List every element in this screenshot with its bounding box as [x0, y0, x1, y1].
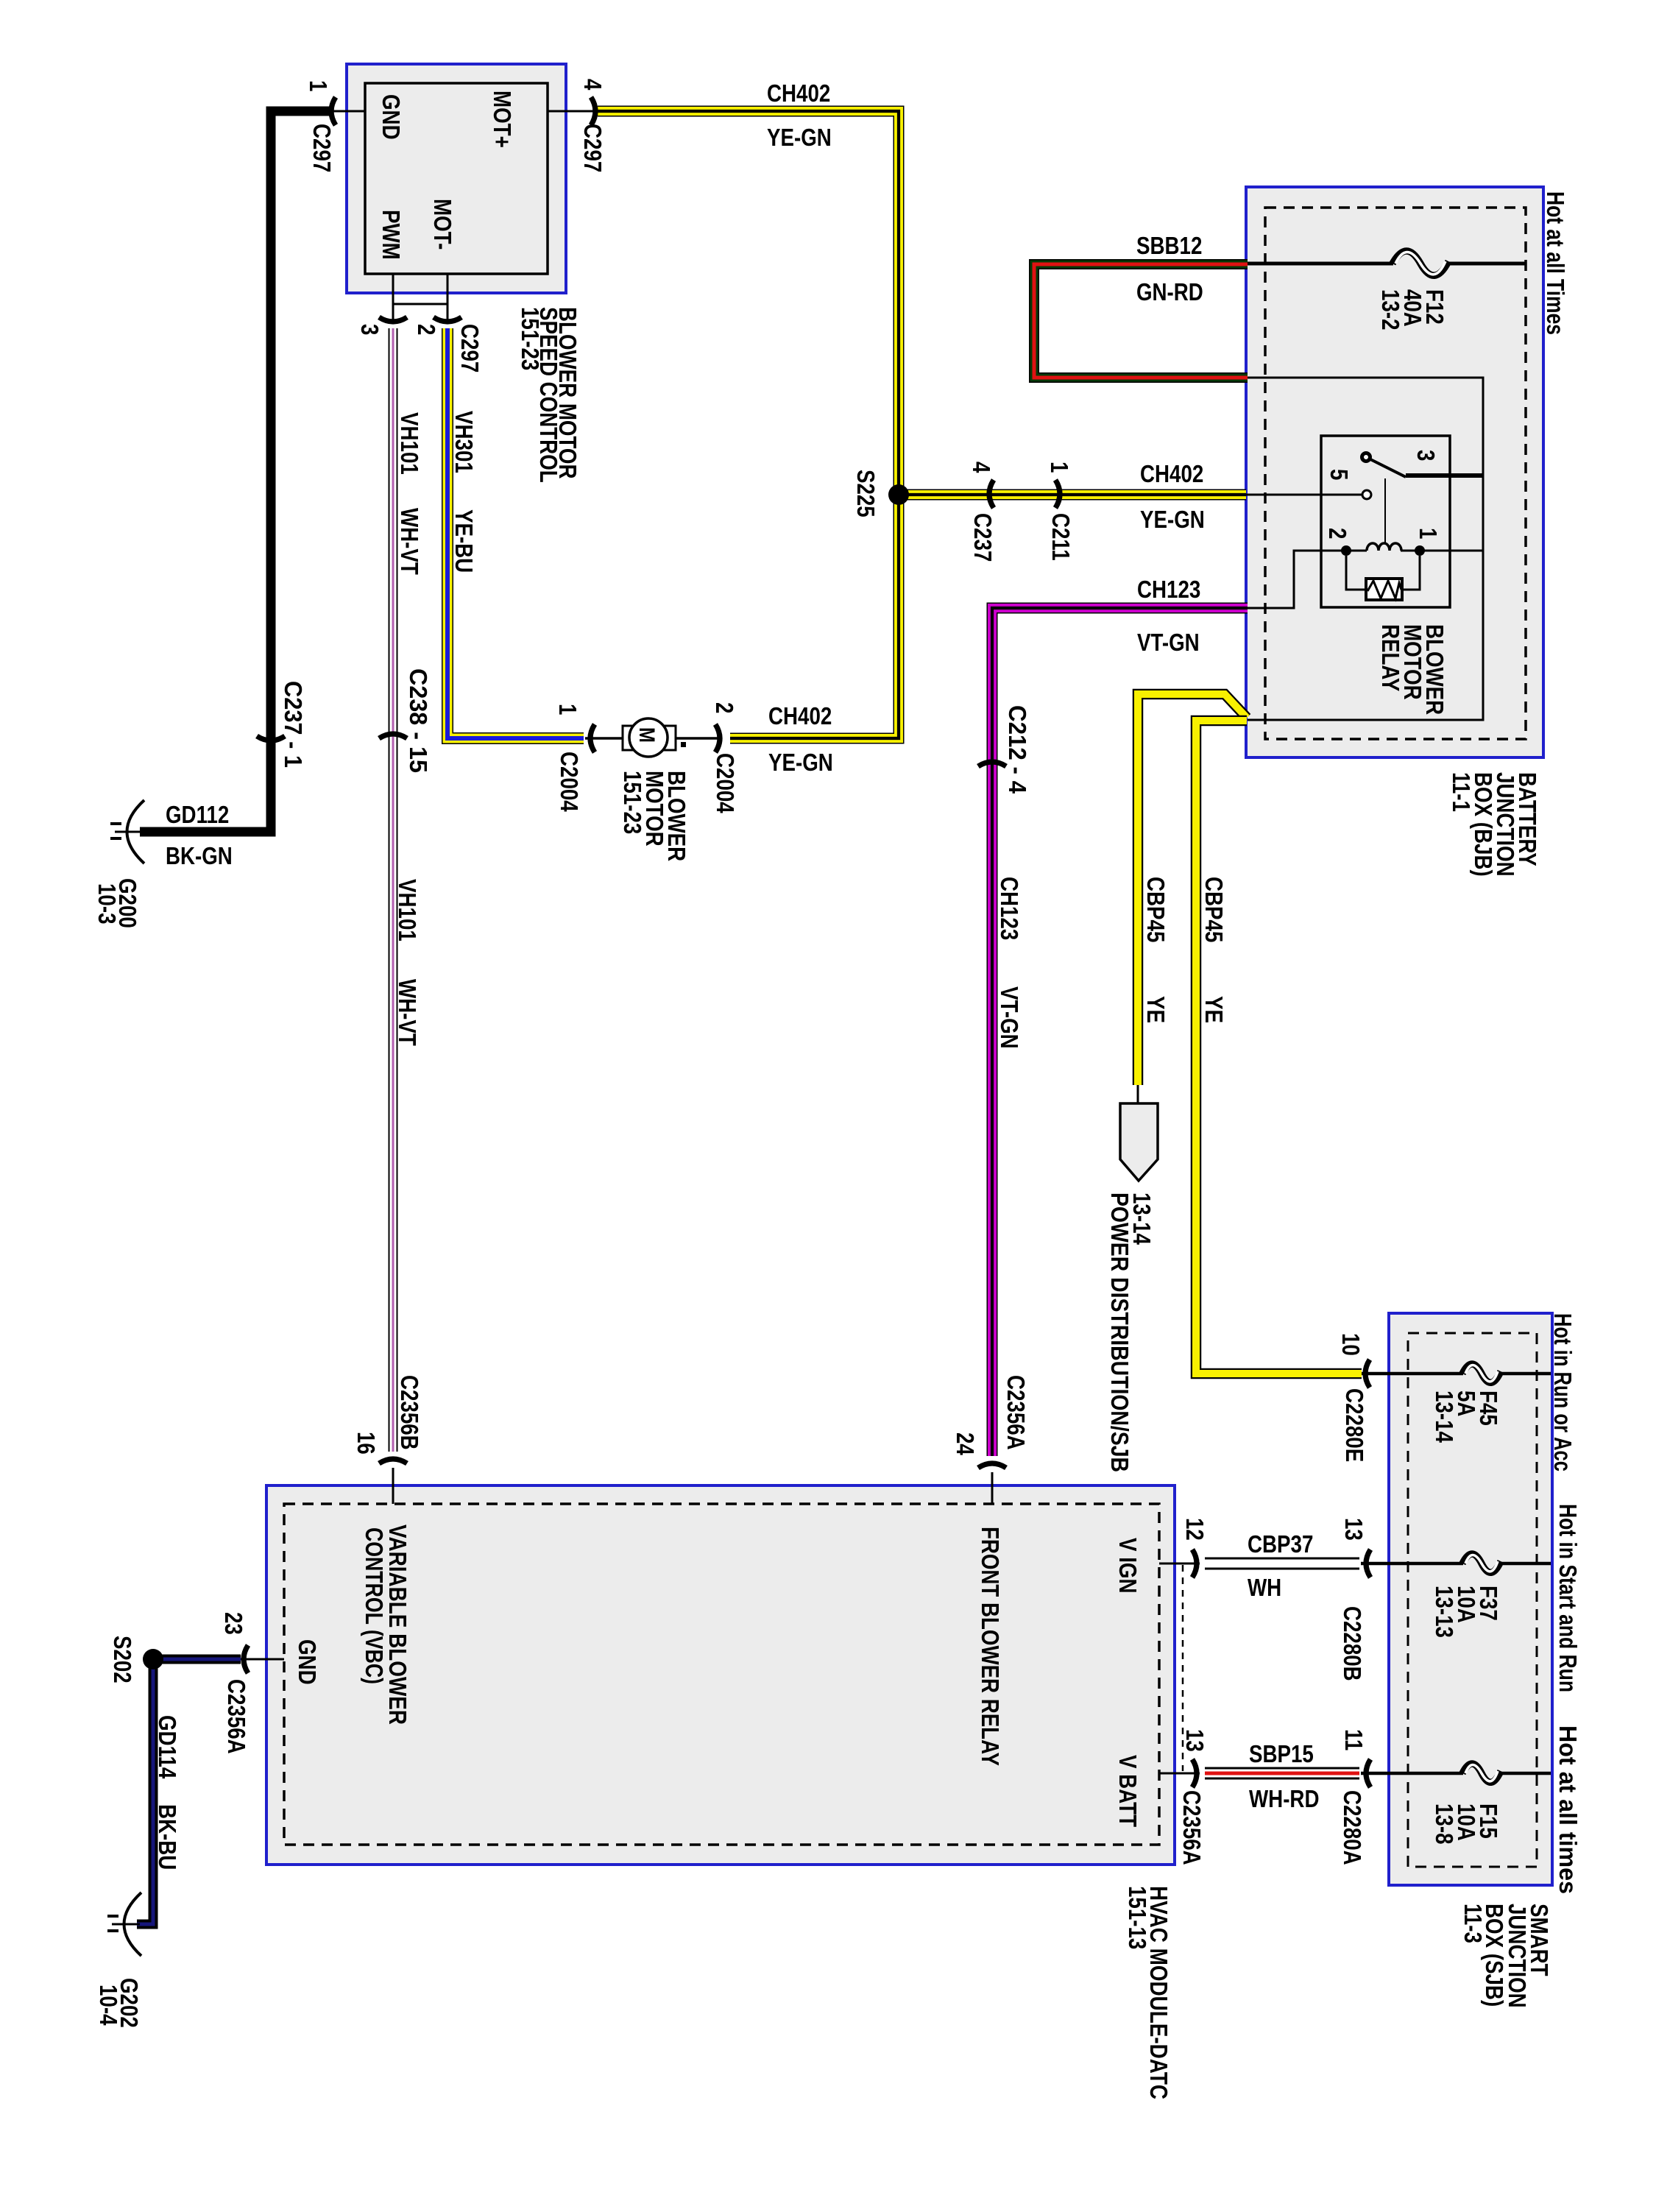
label blower motor relay — [1377, 624, 1448, 715]
svg-text:13-8: 13-8 — [1431, 1803, 1458, 1845]
wire: BJB internal from SBB12 to relay pin 3 — [1248, 378, 1483, 720]
wire: dashed link pin12-pin13 C2356A — [1182, 1565, 1184, 1771]
svg-text:C2280B: C2280B — [1339, 1606, 1366, 1681]
wire CBP45 YE to power distribution — [1138, 694, 1247, 1085]
wire: VBC V BATT pin lead — [1159, 1773, 1200, 1775]
fuse F37 10A — [1462, 1554, 1501, 1572]
junction S225 — [888, 484, 909, 505]
wire CBP37 WH (double line white wire) — [1205, 1558, 1359, 1569]
ground G200 — [127, 800, 145, 863]
svg-text:10-3: 10-3 — [93, 883, 121, 925]
wire: BMSC pin4 lead — [548, 110, 598, 113]
wire: BMSC pin3/pin2 leads and tie — [393, 274, 447, 324]
label G202 10-4 — [95, 1978, 143, 2028]
svg-text:CH123: CH123 — [996, 877, 1023, 940]
connector C2356A pin24 arrow — [978, 1463, 1006, 1468]
svg-text:C297: C297 — [308, 124, 336, 172]
power distribution pointer symbol — [1120, 1103, 1158, 1181]
svg-text:2: 2 — [1324, 528, 1351, 539]
svg-text:YE-BU: YE-BU — [450, 509, 478, 573]
svg-text:151-13: 151-13 — [1124, 1886, 1151, 1949]
svg-text:C297: C297 — [456, 324, 484, 372]
wire CBP45 YE to SJB C2280E — [1196, 721, 1362, 1374]
svg-text:YE: YE — [1142, 996, 1170, 1023]
svg-text:FRONT BLOWER RELAY: FRONT BLOWER RELAY — [977, 1527, 1004, 1766]
svg-text:YE-GN: YE-GN — [767, 124, 832, 151]
wire GD114 BK-BU VBC ground — [137, 1659, 241, 1924]
svg-text:10: 10 — [1337, 1333, 1365, 1356]
svg-text:WH-VT: WH-VT — [394, 979, 421, 1046]
label F45 5A 13-14 — [1431, 1391, 1502, 1443]
svg-text:151-23: 151-23 — [517, 307, 544, 370]
wire CH123 VT-GN relay coil control — [992, 608, 1248, 1456]
svg-text:1: 1 — [305, 80, 332, 91]
svg-text:2: 2 — [711, 702, 738, 713]
svg-text:1: 1 — [1046, 462, 1073, 473]
connector C2356A pin23 arrow — [244, 1645, 248, 1673]
svg-text:MOT-: MOT- — [429, 199, 456, 250]
svg-text:C2004: C2004 — [556, 752, 583, 812]
svg-text:10-4: 10-4 — [95, 1985, 122, 2026]
connector C2280E pin10 arrow — [1365, 1360, 1370, 1388]
svg-text:GND: GND — [294, 1639, 321, 1685]
svg-text:VH301: VH301 — [450, 411, 478, 473]
svg-text:CBP37: CBP37 — [1248, 1530, 1313, 1558]
svg-text:3: 3 — [356, 324, 383, 335]
svg-text:GND: GND — [378, 94, 405, 140]
blower motor relay — [1321, 436, 1450, 607]
blower motor speed control module U1 box — [347, 64, 566, 293]
svg-text:M: M — [634, 727, 659, 743]
svg-text:24: 24 — [952, 1432, 979, 1455]
svg-text:C297: C297 — [579, 124, 606, 172]
svg-text:RELAY: RELAY — [1377, 624, 1404, 691]
svg-text:13: 13 — [1181, 1729, 1209, 1752]
svg-text:MOT+: MOT+ — [489, 91, 516, 148]
svg-text:13-14: 13-14 — [1431, 1391, 1458, 1443]
wire: SJB fuse F45 line — [1362, 1372, 1463, 1376]
connector C2356A pin12 arrow — [1192, 1550, 1197, 1577]
svg-text:V IGN: V IGN — [1114, 1538, 1142, 1594]
wire: SJB fuse F37 line — [1361, 1562, 1463, 1566]
wire CH402 YE-GN branch S225 to relay pin 5 — [899, 490, 1246, 501]
connector C2280B pin13 arrow — [1366, 1550, 1370, 1577]
svg-text:VT-GN: VT-GN — [1137, 629, 1200, 656]
svg-text:CH402: CH402 — [768, 702, 832, 729]
svg-text:2: 2 — [413, 324, 440, 335]
svg-text:1: 1 — [554, 704, 581, 715]
svg-text:12: 12 — [1181, 1518, 1209, 1541]
svg-text:VH101: VH101 — [394, 879, 421, 941]
label F37 10A 13-13 — [1431, 1586, 1502, 1638]
svg-text:C2280A: C2280A — [1339, 1790, 1366, 1865]
fuse F12 40A — [1393, 251, 1448, 275]
wire CH402 YE-GN from MOT+ through S225 to blower motor — [598, 111, 899, 738]
smart junction box (SJB) — [1389, 1313, 1552, 1885]
svg-text:16: 16 — [353, 1432, 380, 1455]
svg-text:151-23: 151-23 — [619, 771, 646, 834]
junction S202 — [143, 1649, 163, 1669]
wire: BJB fuse F12 feed line — [1246, 262, 1393, 266]
svg-text:CH402: CH402 — [767, 79, 830, 107]
label BMSC name — [517, 307, 581, 483]
svg-text:Hot in Run or Acc: Hot in Run or Acc — [1549, 1313, 1577, 1471]
svg-text:1: 1 — [1415, 528, 1442, 539]
label HVAC module — [1124, 1886, 1172, 2099]
svg-text:C2004: C2004 — [712, 753, 739, 813]
label smart junction box — [1459, 1904, 1553, 2008]
fuse F15 10A — [1462, 1764, 1501, 1782]
svg-text:C212 - 4: C212 - 4 — [1004, 705, 1031, 794]
wire: VBC GND pin lead — [241, 1658, 284, 1661]
connector C211 pin1 arrow — [1055, 480, 1060, 508]
svg-text:C2356B: C2356B — [396, 1375, 423, 1450]
svg-text:S225: S225 — [852, 470, 880, 517]
connector C297 pin2 arrow — [434, 317, 461, 322]
ground G202 — [124, 1893, 142, 1956]
wire: VBC V IGN pin lead — [1159, 1563, 1200, 1565]
connector C297 pin3 arrow — [379, 317, 407, 322]
connector C297 pin1 arrow — [331, 97, 336, 125]
svg-text:23: 23 — [220, 1612, 247, 1635]
svg-text:13: 13 — [1340, 1518, 1367, 1541]
svg-text:CBP45: CBP45 — [1142, 877, 1170, 942]
wire VH301 YE-BU (MOT-) to blower motor — [447, 328, 584, 738]
connector C237-1 arrow — [257, 736, 285, 741]
svg-text:VT-GN: VT-GN — [996, 986, 1023, 1049]
connector C237 pin4 arrow — [989, 480, 994, 508]
svg-text:GD114: GD114 — [154, 1715, 181, 1779]
svg-text:YE-GN: YE-GN — [768, 749, 833, 776]
svg-text:SBP15: SBP15 — [1249, 1740, 1314, 1767]
svg-text:CH402: CH402 — [1140, 460, 1203, 487]
label F12 40A 13-2 — [1377, 289, 1448, 331]
svg-text:CBP45: CBP45 — [1200, 877, 1228, 942]
wire VH101 WH-VT (PWM) — [389, 328, 398, 1452]
svg-text:C2280E: C2280E — [1341, 1388, 1368, 1462]
svg-text:VH101: VH101 — [396, 412, 423, 475]
svg-text:WH-RD: WH-RD — [1249, 1785, 1320, 1812]
svg-text:11-1: 11-1 — [1448, 772, 1475, 812]
svg-text:Hot at all Times: Hot at all Times — [1542, 191, 1569, 335]
wire GD112 BK-GN (thick black ground wire) — [140, 111, 329, 832]
label variable blower control — [361, 1524, 411, 1725]
label F15 10A 13-8 — [1431, 1803, 1502, 1845]
connector C2280A pin11 arrow — [1366, 1759, 1370, 1787]
connector C2004 pin2 arrow — [715, 724, 720, 752]
blower motor M — [623, 718, 686, 757]
svg-text:BK-GN: BK-GN — [166, 842, 233, 869]
svg-text:4: 4 — [579, 79, 606, 91]
wire SBP15 WH-RD — [1205, 1768, 1359, 1778]
svg-text:C237: C237 — [969, 513, 997, 562]
svg-text:BK-BU: BK-BU — [154, 1804, 181, 1870]
wire: relay pin 5 to CH402 — [1246, 494, 1362, 496]
svg-text:4: 4 — [968, 462, 995, 473]
svg-text:C2356A: C2356A — [1178, 1790, 1206, 1865]
svg-text:V BATT: V BATT — [1114, 1755, 1142, 1827]
label battery junction box — [1448, 772, 1541, 877]
svg-text:CONTROL (VBC): CONTROL (VBC) — [361, 1527, 388, 1684]
label blower motor name — [619, 771, 690, 861]
svg-text:WH: WH — [1248, 1574, 1281, 1601]
svg-text:11: 11 — [1340, 1729, 1367, 1750]
svg-text:Hot in Start and Run: Hot in Start and Run — [1554, 1504, 1582, 1692]
svg-text:3: 3 — [1412, 450, 1440, 461]
svg-text:5: 5 — [1326, 469, 1353, 480]
wire: lead to power distribution pointer — [1137, 1085, 1139, 1106]
svg-text:SBB12: SBB12 — [1136, 232, 1202, 259]
connector C2004 pin1 arrow — [590, 724, 595, 752]
label 13-14 power distribution — [1106, 1192, 1156, 1472]
connector C2356B pin16 arrow — [379, 1459, 407, 1463]
wire: VBC pin24 lead — [991, 1472, 994, 1504]
svg-text:S202: S202 — [109, 1636, 136, 1683]
wire SBB12 GN-RD battery feed — [1034, 264, 1248, 378]
wire: relay pin 2 to CH123 — [1248, 551, 1346, 608]
svg-text:11-3: 11-3 — [1459, 1904, 1487, 1943]
label G200 10-3 — [93, 878, 141, 928]
svg-text:GD112: GD112 — [166, 801, 229, 828]
svg-text:C211: C211 — [1047, 513, 1075, 561]
svg-text:13-13: 13-13 — [1431, 1586, 1458, 1638]
connector C2356A pin13 arrow — [1192, 1759, 1197, 1787]
svg-text:C237 - 1: C237 - 1 — [280, 681, 307, 768]
svg-text:PWM: PWM — [378, 210, 405, 260]
svg-text:GN-RD: GN-RD — [1136, 278, 1203, 305]
svg-text:CH123: CH123 — [1137, 576, 1200, 603]
HVAC module / variable blower control (VBC) box — [266, 1485, 1175, 1865]
svg-text:POWER DISTRIBUTION/SJB: POWER DISTRIBUTION/SJB — [1106, 1192, 1133, 1472]
wire: VBC pin16 lead — [392, 1468, 394, 1504]
svg-text:Hot at all times: Hot at all times — [1554, 1725, 1582, 1894]
svg-text:C2356A: C2356A — [1002, 1375, 1030, 1450]
svg-text:YE: YE — [1200, 996, 1228, 1023]
wire: BMSC pin1 lead — [329, 110, 365, 113]
svg-text:C238 - 15: C238 - 15 — [405, 668, 432, 773]
connector C238-15 arrow — [379, 734, 407, 738]
wire: blower motor leads — [585, 737, 722, 740]
svg-text:WH-VT: WH-VT — [396, 508, 423, 575]
svg-text:13-2: 13-2 — [1377, 289, 1404, 331]
wire: relay coil pin 1 to CBP45 — [1420, 550, 1483, 552]
connector C297 pin4 arrow — [591, 97, 595, 125]
svg-text:C2356A: C2356A — [223, 1679, 250, 1754]
battery junction box (BJB) — [1246, 187, 1543, 757]
fuse F45 5A — [1462, 1364, 1501, 1382]
connector C212-4 arrow — [978, 762, 1006, 766]
svg-text:YE-GN: YE-GN — [1140, 506, 1205, 533]
wire: SJB fuse F15 line — [1361, 1772, 1463, 1775]
